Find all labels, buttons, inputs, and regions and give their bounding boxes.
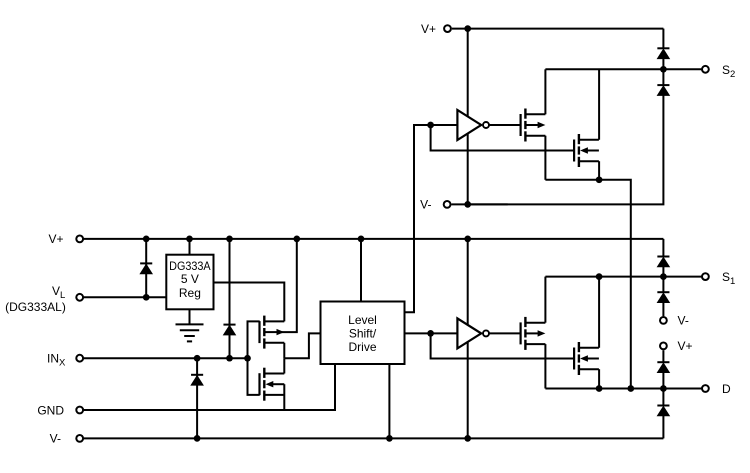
wire bypass from U4 input to NMOS gate bbox=[431, 333, 574, 358]
wire Q1 source down to common rail bbox=[544, 136, 546, 180]
node D junction at diode column bbox=[660, 385, 667, 392]
node V+/supply column junction bbox=[464, 236, 471, 243]
wire U1 output to PMOS gate bbox=[489, 124, 521, 126]
transistor Q1 PMOS (top switch) bbox=[519, 114, 521, 136]
node V+/regulator junction bbox=[186, 236, 193, 243]
svg-text:5 V: 5 V bbox=[181, 272, 199, 286]
ground symbol bbox=[176, 323, 204, 325]
wire level-shift top lead to V+ rail bbox=[360, 239, 362, 302]
node inverter U1 input junction bbox=[427, 122, 434, 129]
terminal circle INx bbox=[76, 355, 83, 362]
transistor Q6 NMOS (bottom switch) bbox=[573, 348, 575, 370]
terminal circle V+ (left) bbox=[76, 236, 83, 243]
node S1 junction bbox=[660, 273, 667, 280]
wire diode anode to S2 node bbox=[662, 59, 664, 70]
node V- line / supply column junction bbox=[464, 201, 471, 208]
wire supply column top cell (V+ to V-) bbox=[467, 29, 469, 205]
terminal circle GND bbox=[76, 407, 83, 414]
wire S2 line bbox=[545, 68, 702, 70]
wire diode anode to S1 node bbox=[662, 267, 664, 277]
wire regulator 5V output to input-stage PMOS drain bbox=[214, 283, 285, 322]
wire Q2 source down to common rail bbox=[598, 161, 600, 180]
wire diode anode down to V- line bbox=[468, 95, 664, 204]
diode S1 clamp to V- pin bbox=[657, 291, 669, 293]
node V-/level-shift junction bbox=[386, 435, 393, 442]
wire V+ pin circle to D clamp diode bbox=[662, 350, 664, 362]
wire diode anode to V- pin circle bbox=[662, 302, 664, 316]
transistor Q4 NMOS (input stage) bbox=[258, 373, 260, 395]
wire V+ top rail bbox=[452, 28, 664, 30]
diode D1 (VL to V+ clamp) bbox=[140, 262, 152, 264]
terminal circle VL bbox=[76, 294, 83, 301]
terminal circle V+ (top) bbox=[444, 25, 451, 32]
wire D to lower clamp diode bbox=[662, 389, 664, 406]
diode D clamp to V- bbox=[657, 405, 669, 407]
wire Q5 source down to D line bbox=[544, 344, 546, 388]
wire INx line bbox=[83, 357, 247, 359]
terminal circle V- (S1 clamp) bbox=[660, 317, 667, 324]
wire GND rail into level-shift box bbox=[83, 364, 335, 410]
node S2 junction bbox=[660, 66, 667, 73]
svg-text:Drive: Drive bbox=[348, 340, 376, 354]
wire VL line bbox=[83, 296, 166, 298]
wire regulator top lead to V+ bbox=[189, 239, 191, 255]
svg-text:GND: GND bbox=[37, 403, 64, 417]
inverter U1 (top driver) bbox=[457, 110, 481, 140]
wire V- main rail bbox=[83, 437, 663, 439]
svg-text:(DG333AL): (DG333AL) bbox=[5, 300, 66, 314]
terminal circle D bbox=[702, 385, 709, 392]
node V+/PMOS body junction bbox=[293, 236, 300, 243]
terminal circle V- (top) bbox=[444, 201, 451, 208]
level shift drive box U3 bbox=[321, 302, 405, 365]
node INx/diode D3 junction bbox=[194, 355, 201, 362]
node V+/diode D1 junction bbox=[143, 236, 150, 243]
wire D line bbox=[545, 388, 702, 390]
node V-/supply column junction bbox=[464, 435, 471, 442]
wire diode anode to D node bbox=[662, 372, 664, 388]
node V+ top / supply column junction bbox=[464, 25, 471, 32]
node D column junction bbox=[627, 385, 634, 392]
wire regulator bottom lead to ground bbox=[189, 309, 191, 324]
wire Q3 source down to logic node bbox=[283, 343, 285, 358]
wire Q1 drain up to S2 bbox=[544, 69, 546, 114]
wire level-shift output to inverter U4 input bbox=[405, 332, 458, 334]
wire top cell common rail to D column bbox=[545, 180, 630, 389]
node VL/diode D1 junction bbox=[143, 294, 150, 301]
terminal circle V+ (D clamp) bbox=[660, 343, 667, 350]
wire S1 to lower clamp diode bbox=[662, 277, 664, 293]
node Q2 source junction bbox=[596, 176, 603, 183]
diode S1 clamp to V+ bbox=[657, 256, 669, 258]
transistor Q2 NMOS (top switch) bbox=[573, 140, 575, 162]
wire S1 line bbox=[545, 276, 702, 278]
node INx/gate line junction bbox=[244, 355, 251, 362]
node Q6 source junction at D bbox=[596, 385, 603, 392]
svg-text:V-: V- bbox=[420, 198, 431, 212]
svg-text:V-: V- bbox=[678, 314, 689, 328]
node inverter U4 input junction bbox=[427, 330, 434, 337]
svg-text:Reg: Reg bbox=[179, 286, 201, 300]
diode S2 clamp to V+ bbox=[657, 47, 669, 49]
wire S2 node to lower clamp diode bbox=[662, 69, 664, 85]
svg-text:V-: V- bbox=[50, 432, 61, 446]
regulator box U2 DG333A 5V Reg bbox=[166, 255, 213, 310]
svg-text:D: D bbox=[722, 382, 731, 396]
wire level-shift output up to inverter U1 input bbox=[405, 125, 458, 312]
wire Q6 drain up to S1 bbox=[598, 277, 600, 348]
diode D2 (IN to V+ clamp) bbox=[223, 324, 235, 326]
diode S2 clamp to V- bbox=[657, 84, 669, 86]
node V+/diode D2 junction bbox=[226, 236, 233, 243]
wire gate line with leads to input pair gates bbox=[248, 321, 260, 395]
node Q6 drain junction at S1 bbox=[596, 273, 603, 280]
terminal circle S2 bbox=[702, 66, 709, 73]
wire V- line from circle bbox=[451, 203, 507, 205]
svg-text:V+: V+ bbox=[48, 232, 63, 246]
transistor Q5 PMOS (bottom switch) bbox=[519, 322, 521, 344]
node INx/diode D2 junction bbox=[226, 355, 233, 362]
wire level-shift V- lead bbox=[388, 364, 390, 438]
wire diode D1 column bbox=[145, 239, 147, 297]
svg-text:V+: V+ bbox=[421, 22, 436, 36]
svg-text:DG333A: DG333A bbox=[169, 259, 211, 273]
svg-text:Shift/: Shift/ bbox=[349, 326, 377, 340]
wire Q5 drain up to S1 bbox=[544, 277, 546, 323]
svg-text:Level: Level bbox=[348, 313, 377, 327]
svg-text:V+: V+ bbox=[678, 339, 693, 353]
wire Q6 source down to D line bbox=[598, 369, 600, 388]
wire diode anode down to V- rail bbox=[662, 416, 664, 439]
terminal circle V- (left) bbox=[76, 435, 83, 442]
wire logic node to level-shift input bbox=[284, 333, 320, 358]
wire bypass from U1 input to NMOS gate bbox=[431, 125, 574, 151]
wire diode D2 column bbox=[229, 239, 231, 358]
terminal circle S1 bbox=[702, 273, 709, 280]
transistor Q3 PMOS (input stage) bbox=[258, 321, 260, 343]
wire U4 output to PMOS gate bbox=[489, 332, 521, 334]
wire V+ main rail bbox=[83, 238, 663, 240]
wire Q3 body to V+ rail bbox=[277, 239, 297, 332]
diode D3 (V- to IN clamp) bbox=[191, 374, 203, 376]
wire diode D3 column bbox=[196, 358, 198, 438]
wire V+ rail drop to S2 clamp diode bbox=[662, 29, 664, 49]
inverter U4 (bottom driver) bbox=[457, 318, 481, 348]
wire supply column bottom cell (V+ to V-) bbox=[467, 239, 469, 439]
wire Q4 drain up to logic node bbox=[283, 358, 285, 373]
diode D clamp to V+ pin bbox=[657, 361, 669, 363]
wire Q4 source and body down to GND rail bbox=[283, 384, 285, 410]
node V-/diode D3 junction bbox=[194, 435, 201, 442]
wire Q2 drain up to S2 bbox=[598, 69, 600, 140]
node V+/level-shift junction bbox=[358, 236, 365, 243]
wire V+ rail drop to S1 clamp diode bbox=[662, 239, 664, 257]
